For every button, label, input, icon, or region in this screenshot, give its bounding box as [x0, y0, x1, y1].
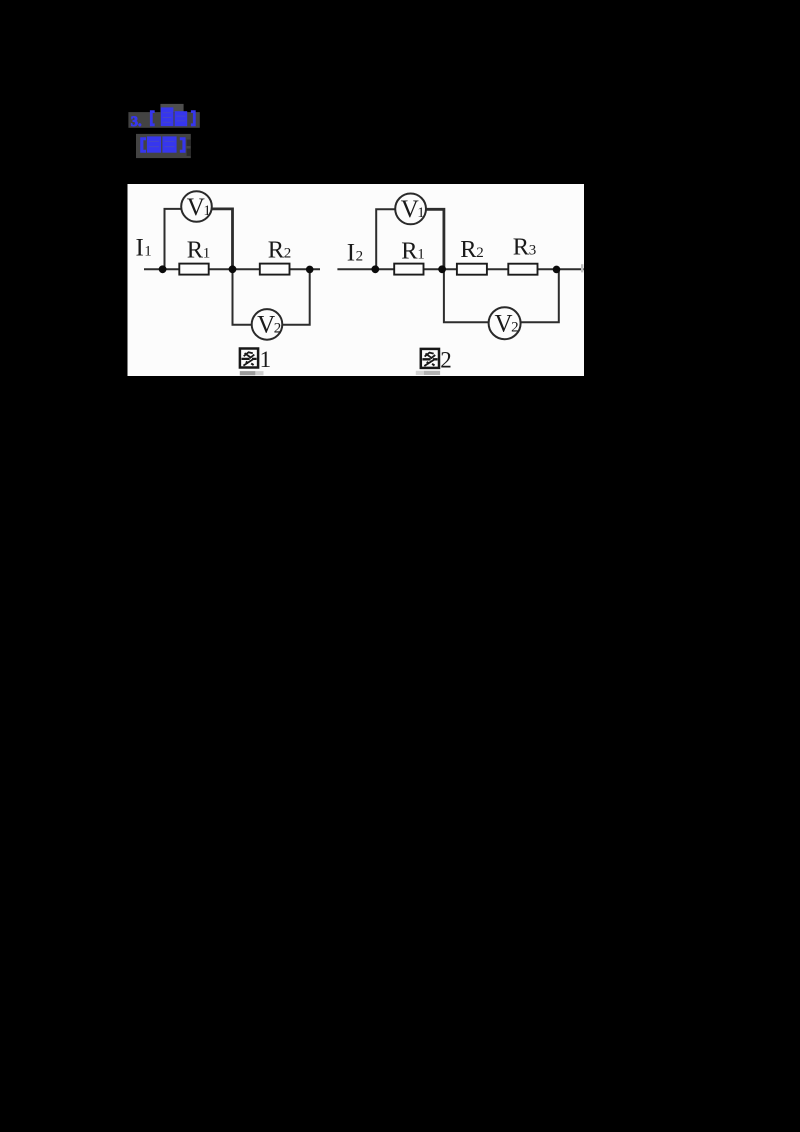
svg-text:3: 3 [529, 243, 537, 259]
svg-text:1: 1 [417, 205, 425, 221]
svg-text:I: I [136, 235, 144, 262]
gray artifact strip under caption 2 [416, 371, 424, 375]
voltmeter V1 (circuit 2) [395, 194, 426, 225]
node F (junction after R3 circuit 2) [553, 266, 561, 274]
stroke gaps in heading glyphs line 2 [149, 141, 175, 147]
gray artifact strip under caption 1 [240, 371, 256, 375]
wire: V1 right branch down to node B [212, 209, 233, 269]
blue heading text line 1 "3.【例题】" [131, 107, 196, 129]
node A (left junction circuit 1) [159, 265, 167, 273]
node B (junction between R1 and R2 circuit 1) [229, 265, 237, 273]
svg-text:R: R [460, 236, 477, 263]
svg-text:V: V [401, 196, 419, 223]
svg-text:I: I [347, 240, 355, 267]
svg-text:1: 1 [417, 247, 425, 263]
svg-text:1: 1 [203, 245, 211, 261]
node E (junction between R1 and R2 circuit 2) [438, 265, 446, 273]
caption 图2 glyph box [421, 349, 439, 368]
voltmeter V2 (circuit 1) [252, 309, 283, 340]
white figure panel [128, 184, 585, 376]
wire: V1 right branch down to node E [426, 209, 444, 269]
node C (right junction circuit 1) [306, 266, 314, 274]
voltmeter V1 (circuit 1) [181, 191, 212, 222]
svg-text:2: 2 [284, 245, 292, 261]
svg-text:R: R [268, 236, 285, 263]
svg-text:1: 1 [203, 203, 211, 219]
svg-text:V: V [187, 194, 205, 221]
svg-text:2: 2 [274, 321, 282, 337]
header highlight block line 2 [136, 134, 191, 158]
header highlight block line 1 [128, 112, 199, 128]
wire: V1 left branch up from node A [165, 209, 182, 269]
svg-text:V: V [257, 312, 275, 339]
svg-text:R: R [401, 238, 418, 265]
svg-text:2: 2 [440, 348, 452, 373]
wire: main horizontal line circuit 1 [144, 268, 320, 270]
svg-text:2: 2 [476, 245, 484, 261]
wire: V2 right branch up to node F [521, 269, 559, 322]
gray cursor tick at right wire end [581, 264, 583, 272]
wire: V1 left branch up from node D [376, 209, 395, 269]
resistor R1 (circuit 2) [394, 264, 423, 275]
wire: V2 left branch down from node B [233, 269, 252, 325]
svg-text:2: 2 [511, 320, 518, 336]
stroke gaps in heading glyphs [163, 112, 186, 123]
blue heading text line 2 "【解析】" [140, 136, 185, 152]
svg-text:R: R [187, 236, 204, 263]
voltmeter V2 (circuit 2) [489, 307, 521, 339]
caption 图1 glyph box [240, 349, 258, 368]
small dark marks right of line 2 [187, 140, 191, 147]
resistor R2 (circuit 1) [260, 264, 290, 275]
svg-text:3.: 3. [131, 114, 142, 130]
wire: V2 right branch up to node C [282, 269, 309, 325]
node D (left junction circuit 2) [371, 265, 379, 273]
resistor R2 (circuit 2) [457, 264, 487, 275]
header highlight tab [160, 104, 183, 112]
wire: main horizontal line circuit 2 [337, 268, 584, 270]
wire: V2 left branch down from node E [444, 269, 489, 322]
svg-text:1: 1 [260, 347, 272, 372]
resistor R1 (circuit 1) [179, 264, 208, 275]
svg-text:2: 2 [356, 249, 364, 265]
svg-text:R: R [513, 234, 530, 261]
svg-text:V: V [495, 311, 513, 338]
resistor R3 (circuit 2) [508, 264, 537, 275]
svg-text:1: 1 [144, 244, 152, 260]
